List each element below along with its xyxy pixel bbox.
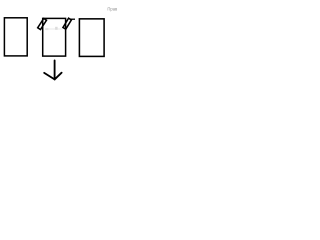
rectangle box1 (left) <box>4 18 27 56</box>
faint interior mark right in box2 <box>55 27 58 30</box>
svg-text:Прав: Прав <box>107 7 118 12</box>
rectangle box2 (middle) <box>43 18 66 56</box>
decoration right: tilted tag at box2 top-right corner <box>63 18 71 29</box>
arrow down below box2 <box>44 60 61 79</box>
rectangle box3 (right) <box>79 19 104 57</box>
decoration left: tilted tag at box2 top-left corner <box>38 18 47 29</box>
tick line right of decoration <box>70 18 75 20</box>
faint interior text-line smudge in box2 <box>45 28 62 29</box>
faint interior mark left in box2 <box>45 28 48 30</box>
background <box>0 0 120 90</box>
